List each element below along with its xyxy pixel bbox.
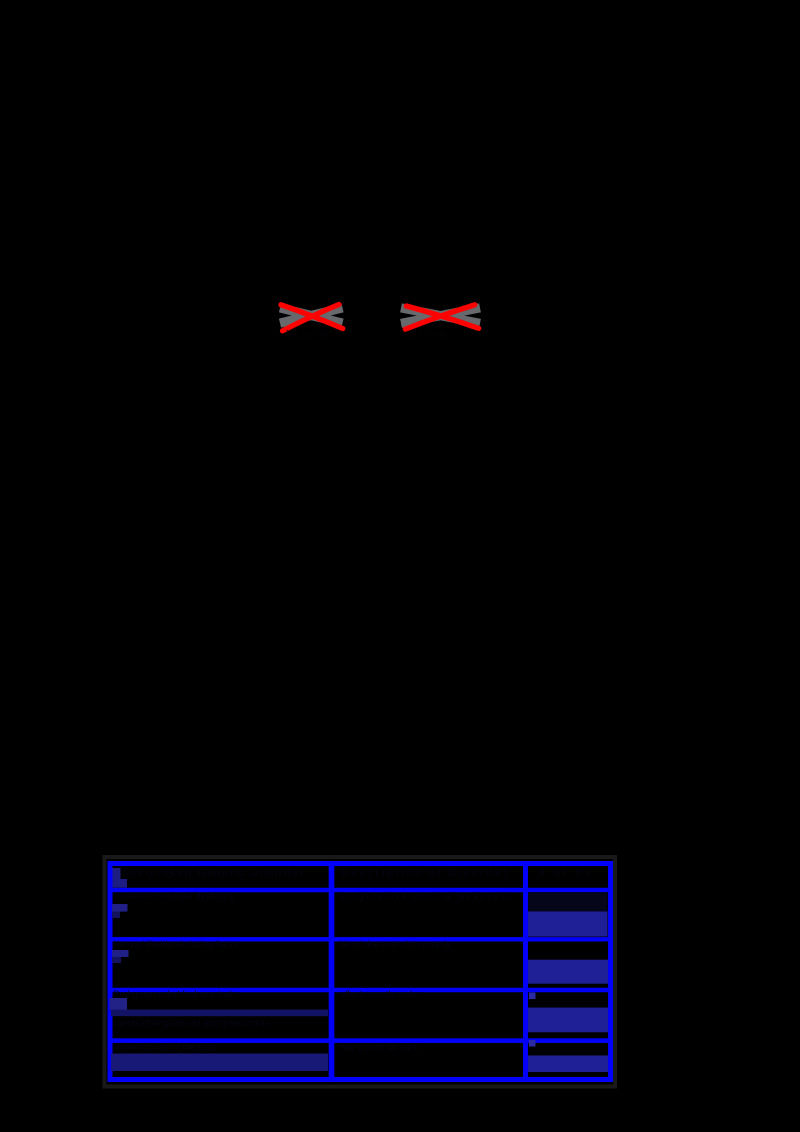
table horizontal line 3 — [108, 988, 614, 992]
table vertical line 1 — [329, 861, 335, 1082]
svg-text:XX female: XX female — [286, 329, 333, 340]
row 3 col 1 navy mark — [112, 950, 129, 957]
svg-text:Hemophilia blood clotting fact: Hemophilia blood clotting factor — [113, 939, 239, 949]
table horizontal line 2 — [108, 937, 614, 941]
row 4 col 1 navy start block — [110, 998, 128, 1010]
header cell 1 navy start block — [113, 868, 128, 888]
row 2 col 3 navy answer block — [528, 912, 608, 937]
row 2 col 1 navy mark — [112, 904, 128, 912]
table horizontal line 4 — [108, 1038, 614, 1043]
row 5 col 3 navy tick — [529, 1040, 536, 1047]
row 5 col 3 navy answer block — [528, 1056, 608, 1073]
row 4 col 3 navy tick — [529, 993, 536, 1000]
figure 2 gray X glyph — [401, 308, 480, 324]
svg-text:Duchenne muscular dystrophy: Duchenne muscular dystrophy — [113, 891, 235, 901]
figure 1 red cross-out stroke (top-right to bottom-left) — [283, 304, 340, 330]
svg-text:affects mostly males: affects mostly males — [340, 989, 422, 999]
svg-text:X or Y?: X or Y? — [538, 867, 594, 879]
table outer border — [110, 864, 611, 1080]
table horizontal line 1 (below header) — [108, 888, 614, 892]
figure 1 gray X glyph — [280, 308, 343, 323]
row 3 col 1 navy mark tail — [112, 957, 121, 963]
svg-text:Red-green colorblindness trait: Red-green colorblindness trait — [113, 989, 234, 999]
row 5 col 1 navy answer block — [111, 1054, 328, 1072]
row 2 col 1 navy mark tail — [112, 912, 120, 919]
svg-text:cannot distinguish red and gre: cannot distinguish red and green colors — [113, 1018, 271, 1028]
svg-text:hair growth on ears: hair growth on ears — [340, 1042, 418, 1052]
row 4 col 1 wide navy bar — [111, 1010, 328, 1017]
svg-text:Description of Disorder: Description of Disorder — [341, 867, 509, 879]
row 2 col 3 faint upper shade — [528, 893, 608, 912]
row 3 col 3 navy answer block — [528, 960, 608, 984]
svg-text:Hypertrichosis of the ears: Hypertrichosis of the ears — [113, 1042, 216, 1052]
row 4 col 3 navy answer block — [528, 1008, 608, 1033]
svg-text:Sex-Linked Genetic Disorder: Sex-Linked Genetic Disorder — [122, 867, 305, 879]
svg-text:XY male: XY male — [410, 329, 448, 340]
table vertical line 2 — [523, 861, 528, 1082]
figure 1 red cross-out stroke (top-left to bottom-right) — [281, 305, 343, 329]
figure 2 red cross-out stroke (top-right to bottom-left) — [405, 305, 475, 329]
table outer halo — [105, 857, 616, 1087]
figure 2 red cross-out stroke (top-left to bottom-right) — [406, 306, 478, 328]
svg-text:progressive muscle weakness: progressive muscle weakness — [340, 891, 514, 901]
svg-text:blood does not clot properly: blood does not clot properly — [340, 939, 451, 949]
